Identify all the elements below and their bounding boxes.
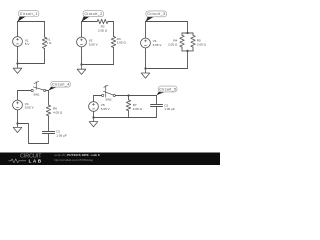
svg-text:2.05 Ω: 2.05 Ω [168, 42, 178, 46]
node circuit3 parallel bottom junction [186, 50, 188, 52]
svg-text:1 Ω: 1 Ω [46, 41, 52, 45]
resistor R7 [126, 100, 130, 111]
voltage source V2 [77, 37, 87, 47]
wire circuit5 top rail left [94, 95, 102, 97]
node circuit3 parallel top junction [186, 32, 188, 34]
svg-text:2.05 Ω: 2.05 Ω [98, 29, 108, 33]
svg-text:LAB: LAB [29, 158, 41, 163]
wire circuit5 top rail right [115, 95, 156, 97]
svg-text:1.05 µF: 1.05 µF [56, 133, 67, 137]
svg-text:3.05 Ω: 3.05 Ω [197, 42, 207, 46]
resistor R5 [191, 35, 195, 47]
voltage source V1 [13, 37, 23, 47]
svg-text:4.05 Ω: 4.05 Ω [133, 107, 143, 111]
svg-text:5.05 V: 5.05 V [153, 43, 163, 47]
svg-text:http://circuitlab.com/c/5735xb: http://circuitlab.com/c/5735xbdsg [54, 158, 93, 162]
ground circuit1 [13, 64, 22, 74]
svg-text:SW2: SW2 [105, 98, 112, 102]
svg-text:Circuit_3: Circuit_3 [147, 12, 165, 16]
wire circuit3 parallel top bar [182, 32, 193, 34]
label Circuit_1 [18, 11, 39, 22]
wire R4 top lead [181, 33, 183, 35]
wire R5 top lead [192, 33, 194, 35]
wire circuit2 top rail left segment [82, 21, 98, 23]
resistor R3 [111, 36, 115, 47]
capacitor C1 [42, 132, 54, 134]
node circuit1 ground junction [16, 62, 18, 64]
wire circuit2 V2 top lead [81, 22, 83, 38]
svg-text:1.05 µF: 1.05 µF [164, 107, 175, 111]
wire circuit2 R3 bottom lead [113, 48, 115, 65]
wire circuit1 V1 bottom lead [17, 46, 19, 63]
svg-text:3.05 Ω: 3.05 Ω [117, 41, 127, 45]
wire circuit3 V3 top lead [145, 22, 147, 39]
wire circuit3 bottom rail [146, 68, 188, 70]
node circuit4 ground junction [16, 122, 18, 124]
wire circuit5 V5 bottom lead [93, 111, 95, 117]
label Circuit_5 [157, 86, 178, 95]
wire circuit2 R3 top lead [113, 22, 115, 37]
svg-text:5.05 V: 5.05 V [101, 107, 111, 111]
wire circuit1 R1 bottom lead [44, 49, 46, 64]
svg-text:4.05 Ω: 4.05 Ω [53, 110, 63, 114]
wire circuit4 V4 top lead [17, 91, 19, 101]
resistor R6 [46, 105, 50, 116]
ground circuit3 [141, 69, 150, 79]
wire circuit3 top rail [146, 21, 188, 23]
resistor R1 [42, 37, 46, 49]
switch SW1 [31, 89, 33, 91]
wire circuit5 bottom rail [94, 117, 157, 119]
wire circuit5 right drop to C2 [156, 96, 158, 105]
wire circuit4 right drop to R6 [48, 91, 50, 106]
svg-text:SW1: SW1 [33, 92, 40, 96]
ground circuit2 [77, 65, 86, 75]
svg-text:5 V: 5 V [25, 42, 31, 46]
svg-text:Circuit_4: Circuit_4 [52, 83, 69, 87]
wire circuit3 V3 bottom lead [145, 48, 147, 69]
wire circuit2 bottom rail [82, 64, 114, 66]
footer bar [0, 153, 220, 166]
capacitor C2 [151, 105, 163, 107]
label Circuit_3 [146, 11, 167, 22]
voltage source V5 [89, 102, 99, 112]
node circuit5 R7 top junction [127, 94, 129, 96]
wire circuit1 bottom rail [18, 63, 45, 65]
wire circuit5 C2 bottom lead [156, 107, 158, 118]
voltage source V3 [141, 38, 151, 48]
wire circuit4 top rail left [18, 90, 32, 92]
svg-text:Circuit_1: Circuit_1 [20, 12, 38, 16]
wire circuit4 top rail right [46, 90, 49, 92]
svg-text:5.05 V: 5.05 V [25, 106, 35, 110]
label Circuit_2 [82, 11, 104, 22]
svg-text:Circuit_5: Circuit_5 [159, 87, 176, 91]
svg-text:5.05 V: 5.05 V [89, 43, 99, 47]
wire R4 bottom lead [181, 47, 183, 51]
wire R5 bottom lead [192, 47, 194, 51]
ground circuit5 [89, 118, 98, 127]
wire circuit1 top rail [18, 21, 45, 23]
node circuit3 ground junction [144, 67, 146, 69]
wire circuit4 V4 bottom lead [17, 110, 19, 124]
node circuit2 ground junction [80, 63, 82, 65]
svg-text:PHYSICS 1850 - Lab 6: PHYSICS 1850 - Lab 6 [67, 153, 100, 157]
switch SW2 [102, 94, 104, 96]
wire circuit1 R1 top lead [44, 22, 46, 38]
wire circuit5 R7 bottom lead [128, 111, 130, 118]
wire circuit2 top rail right segment [108, 21, 114, 23]
resistor R4 [180, 35, 184, 47]
wire circuit4 C1 bottom lead [48, 134, 50, 144]
wire circuit5 V5 top lead [93, 96, 95, 102]
wire circuit5 R7 drop [128, 96, 130, 100]
wire circuit4 bottom rail [18, 124, 49, 144]
wire circuit3 stem below parallel pair [187, 51, 189, 69]
node circuit5 ground junction [92, 116, 94, 118]
voltage source V4 [13, 100, 23, 110]
svg-text:Circuit_2: Circuit_2 [85, 12, 103, 16]
footer project text [54, 153, 100, 162]
footer CircuitLab logo [9, 154, 43, 164]
label Circuit_4 [49, 81, 71, 90]
wire circuit4 R6 to C1 [48, 116, 50, 131]
wire circuit2 V2 bottom lead [81, 47, 83, 65]
wire circuit3 parallel bottom bar [182, 50, 193, 52]
wire circuit1 V1 top lead [17, 22, 19, 37]
wire circuit3 stem to parallel pair [187, 22, 189, 34]
svg-text:smith.25 |: smith.25 | [54, 153, 66, 157]
ground circuit4 [13, 124, 22, 133]
resistor R2 [97, 19, 108, 23]
